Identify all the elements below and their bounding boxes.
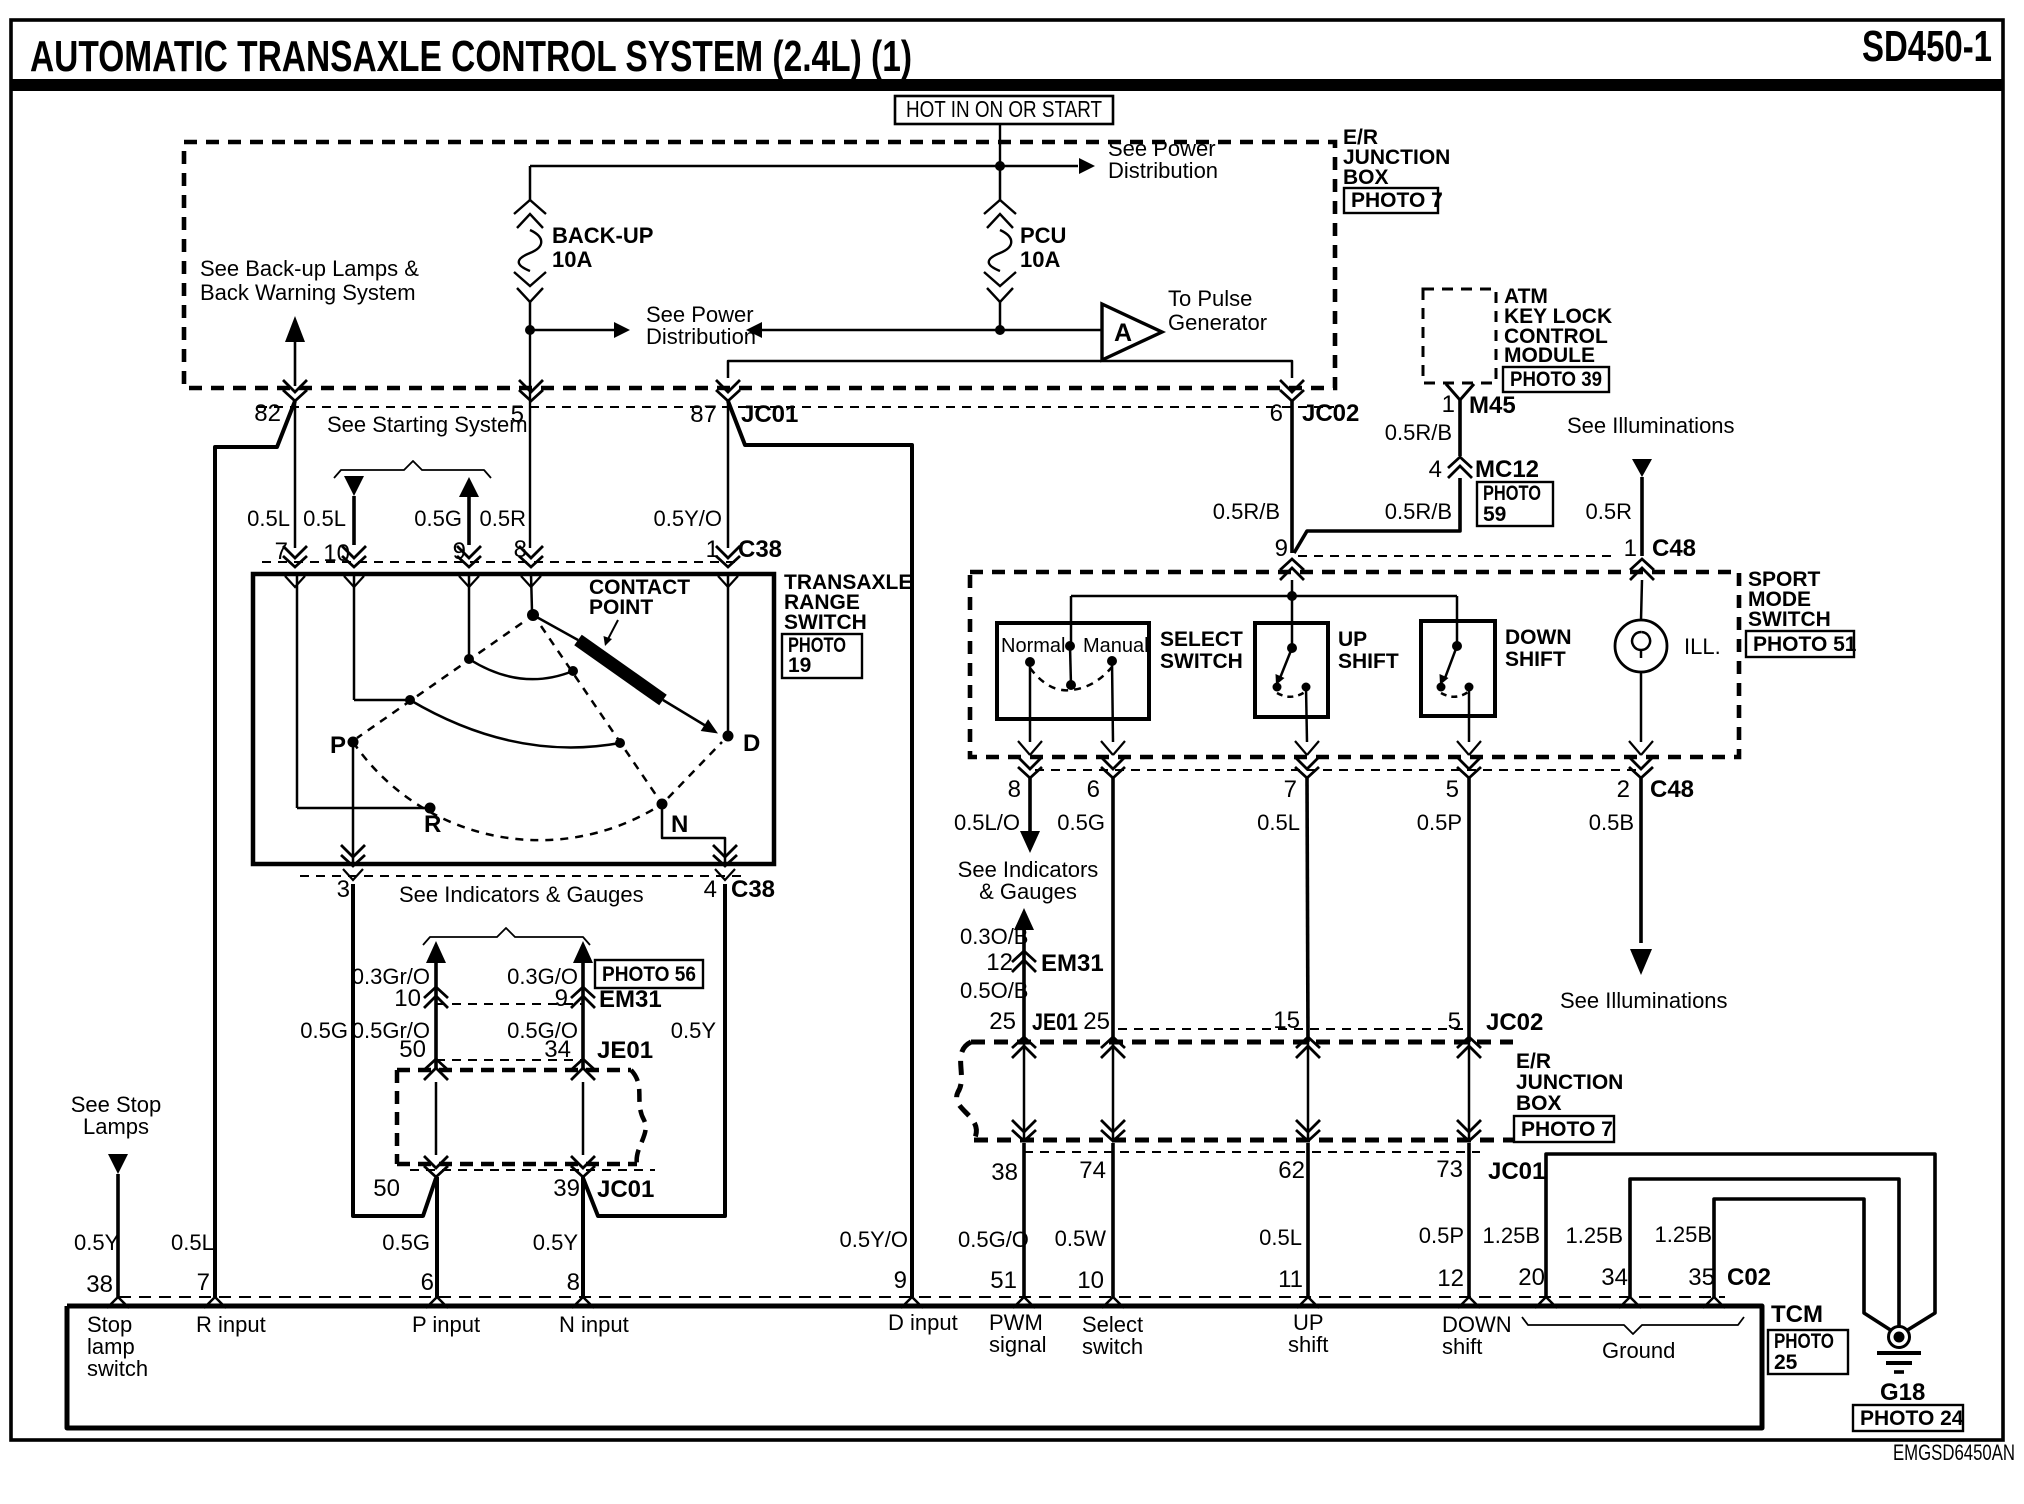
svg-text:JE01: JE01 bbox=[597, 1037, 653, 1064]
svg-text:0.5L: 0.5L bbox=[171, 1230, 214, 1255]
harness dashed JC02 row bbox=[1118, 1028, 1469, 1030]
wire select mid bbox=[1112, 1042, 1115, 1140]
select switch contacts bbox=[1025, 641, 1117, 690]
svg-text:PHOTO: PHOTO bbox=[1774, 1330, 1834, 1353]
svg-text:0.5Y: 0.5Y bbox=[74, 1230, 120, 1255]
connector C38-3 bbox=[341, 845, 365, 880]
svg-text:See Starting System: See Starting System bbox=[327, 412, 528, 437]
svg-text:JC02: JC02 bbox=[1486, 1009, 1543, 1036]
label 6 JC02 bbox=[1270, 400, 1360, 427]
svg-text:C38: C38 bbox=[738, 536, 782, 563]
svg-text:signal: signal bbox=[989, 1332, 1046, 1357]
sport mode switch box (dashed) bbox=[970, 572, 1739, 757]
TCM pin 7 R input bbox=[204, 1297, 226, 1308]
svg-text:0.5L: 0.5L bbox=[1257, 810, 1300, 835]
svg-text:35: 35 bbox=[1688, 1264, 1715, 1291]
connector JC02-5 bbox=[1457, 1037, 1481, 1058]
wire JC01-38 to PWM (0.5G/O) bbox=[1022, 1143, 1026, 1297]
down shift switch box bbox=[1421, 621, 1495, 716]
svg-text:0.5L/O: 0.5L/O bbox=[954, 810, 1020, 835]
harness dashed line C48 bottom bbox=[1035, 769, 1641, 771]
wire JC01-87 to JC02-6 link bbox=[728, 361, 1292, 378]
svg-text:A: A bbox=[1114, 319, 1132, 347]
connector JC02-25 bbox=[1101, 1037, 1125, 1058]
svg-text:1: 1 bbox=[706, 536, 719, 563]
svg-text:shift: shift bbox=[1288, 1332, 1328, 1357]
connector JE01-50 bbox=[424, 1059, 448, 1080]
TCM pin 51 PWM bbox=[1013, 1297, 1035, 1308]
svg-text:switch: switch bbox=[1082, 1334, 1143, 1359]
svg-text:HOT IN ON OR START: HOT IN ON OR START bbox=[906, 96, 1102, 122]
svg-text:AUTOMATIC TRANSAXLE CONTROL SY: AUTOMATIC TRANSAXLE CONTROL SYSTEM (2.4L… bbox=[30, 32, 912, 81]
svg-text:8: 8 bbox=[1008, 776, 1021, 803]
label See Power Distribution (top) bbox=[1108, 136, 1218, 183]
connector JE01-34 bbox=[571, 1059, 595, 1080]
svg-text:10: 10 bbox=[1077, 1267, 1104, 1294]
svg-text:10A: 10A bbox=[552, 247, 592, 272]
connector JC02-15 bbox=[1296, 1037, 1320, 1058]
svg-text:C48: C48 bbox=[1652, 535, 1696, 562]
wire 82 to C38-7 (0.5L) bbox=[294, 401, 297, 548]
label 1 C38 bbox=[706, 536, 782, 563]
arrow terminal to illuminations (0.5B) bbox=[1630, 949, 1652, 975]
svg-text:1.25B: 1.25B bbox=[1566, 1223, 1624, 1248]
svg-text:6: 6 bbox=[1087, 776, 1100, 803]
wire C48-1 to lamp bbox=[1641, 580, 1642, 620]
label BACK-UP 10A bbox=[552, 223, 653, 272]
svg-text:EM31: EM31 bbox=[1041, 950, 1104, 977]
harness dashed JE01 row bbox=[436, 1059, 583, 1061]
wire pin1 internal to D bbox=[727, 574, 730, 731]
label SELECT SWITCH bbox=[1160, 628, 1243, 673]
connector C38-1 bbox=[716, 546, 740, 587]
label SPORT MODE SWITCH bbox=[1748, 568, 1831, 631]
svg-text:BACK-UP: BACK-UP bbox=[552, 223, 653, 248]
TCM pin 6 P input bbox=[426, 1297, 448, 1308]
svg-text:9: 9 bbox=[555, 985, 568, 1012]
arrow terminal from starting system (pin10) bbox=[344, 476, 364, 545]
svg-text:0.5Y: 0.5Y bbox=[533, 1230, 579, 1255]
svg-text:0.5R/B: 0.5R/B bbox=[1385, 499, 1452, 524]
label 87 JC01 bbox=[690, 401, 798, 428]
fuse PCU 10A bbox=[999, 166, 1002, 200]
TCM box bbox=[67, 1306, 1762, 1428]
svg-text:Distribution: Distribution bbox=[1108, 158, 1218, 183]
svg-text:34: 34 bbox=[544, 1036, 571, 1063]
label Stop lamp switch bbox=[87, 1312, 148, 1381]
svg-text:PHOTO 24: PHOTO 24 bbox=[1860, 1407, 1964, 1430]
wire manual contact down bbox=[1112, 661, 1113, 742]
harness dashed line below E/R box bbox=[258, 406, 1334, 408]
wire pin7 to R contact bbox=[297, 807, 425, 810]
label box PHOTO 51 bbox=[1746, 631, 1857, 657]
label box PHOTO 7 bbox=[1344, 188, 1443, 213]
svg-text:50: 50 bbox=[373, 1175, 400, 1202]
svg-text:0.5B: 0.5B bbox=[1589, 810, 1634, 835]
wire JE01-34 to JC01-39 bbox=[582, 1082, 585, 1155]
leader contact point bbox=[604, 620, 619, 646]
E/R junction box (dashed) bbox=[184, 142, 1335, 388]
fuse BACK-UP 10A bbox=[529, 166, 532, 200]
connector sport box bottom x=1469 bbox=[1457, 741, 1481, 778]
label 2 C48 bbox=[1617, 776, 1694, 803]
label DOWN SHIFT bbox=[1505, 626, 1572, 671]
svg-text:2: 2 bbox=[1617, 776, 1630, 803]
node contact A bbox=[464, 654, 474, 664]
wire ground pin35 (1.25B) bbox=[1714, 1199, 1892, 1331]
svg-text:0.3O/B: 0.3O/B bbox=[960, 924, 1028, 949]
label E/R JUNCTION BOX (right) bbox=[1516, 1050, 1623, 1115]
node R bbox=[425, 803, 436, 814]
svg-text:PHOTO 51: PHOTO 51 bbox=[1753, 633, 1857, 656]
arrow terminal to indicators (P chain) bbox=[426, 941, 446, 963]
svg-text:JC01: JC01 bbox=[597, 1176, 654, 1203]
TCM pin 8 N input bbox=[572, 1297, 594, 1308]
TCM pin 9 D input bbox=[901, 1297, 923, 1308]
svg-text:PHOTO 39: PHOTO 39 bbox=[1510, 368, 1602, 391]
wire feed stub select bbox=[1070, 596, 1073, 648]
label UP SHIFT bbox=[1338, 628, 1399, 673]
svg-text:10: 10 bbox=[323, 540, 350, 567]
wire JE01-50 to JC01-50 bbox=[435, 1082, 438, 1155]
svg-text:11: 11 bbox=[1278, 1266, 1303, 1293]
buffer A to pulse generator bbox=[1102, 304, 1162, 360]
connector sport box bottom x=1030 bbox=[1018, 741, 1042, 778]
wire HOT feed down bbox=[999, 124, 1001, 166]
wire backup fuse to C38-8 bbox=[529, 330, 531, 548]
svg-text:BOX: BOX bbox=[1516, 1092, 1562, 1115]
node D bbox=[723, 731, 734, 742]
svg-text:SWITCH: SWITCH bbox=[1748, 608, 1831, 631]
node pcu fuse output bbox=[995, 325, 1005, 335]
svg-text:See Indicators & Gauges: See Indicators & Gauges bbox=[399, 882, 644, 907]
svg-text:switch: switch bbox=[87, 1356, 148, 1381]
svg-text:1.25B: 1.25B bbox=[1483, 1223, 1541, 1248]
label UP shift bbox=[1288, 1310, 1328, 1357]
svg-text:TCM: TCM bbox=[1771, 1301, 1823, 1328]
svg-text:19: 19 bbox=[788, 654, 811, 677]
wire down shift output bbox=[1468, 687, 1471, 742]
svg-text:R: R bbox=[424, 811, 441, 838]
label 39 JC01 bbox=[553, 1175, 654, 1203]
connector EM31-12 bbox=[1012, 951, 1036, 972]
svg-text:See Illuminations: See Illuminations bbox=[1560, 988, 1728, 1013]
node contact C bbox=[405, 695, 415, 705]
connector JC01-38 bbox=[1012, 1120, 1036, 1141]
label box PHOTO 19 bbox=[782, 634, 862, 678]
connector JC01-74 bbox=[1101, 1120, 1125, 1141]
svg-text:38: 38 bbox=[86, 1271, 113, 1298]
wire JC01-39 to N input bbox=[581, 1177, 585, 1297]
svg-text:PHOTO 7: PHOTO 7 bbox=[1351, 189, 1443, 212]
wire JC01-73 to down shift (0.5P) bbox=[1467, 1143, 1471, 1297]
svg-text:N input: N input bbox=[559, 1312, 629, 1337]
svg-text:JC01: JC01 bbox=[1488, 1158, 1545, 1185]
harness dashed JC01 row (left) bbox=[410, 1169, 655, 1171]
svg-text:SWITCH: SWITCH bbox=[784, 611, 867, 634]
wire backup output to arrow bbox=[530, 329, 614, 331]
connector M45-1 bbox=[1446, 384, 1474, 410]
connector JC01-62 bbox=[1296, 1120, 1320, 1141]
arrow terminal to indicators (PWM chain) bbox=[1014, 908, 1034, 930]
ground symbol G18 bbox=[1877, 1327, 1921, 1373]
harness dashed line C48 top bbox=[1298, 555, 1616, 557]
svg-text:0.5G: 0.5G bbox=[414, 506, 462, 531]
wire JC01-50 to P input bbox=[435, 1177, 439, 1297]
wire ground pin20 (1.25B) bbox=[1546, 1154, 1935, 1331]
svg-text:0.5G: 0.5G bbox=[1057, 810, 1105, 835]
svg-text:5: 5 bbox=[1446, 776, 1459, 803]
TCM pin 35 gnd bbox=[1703, 1297, 1725, 1308]
contact arc upper bbox=[469, 659, 573, 679]
connector JC01-87 bbox=[716, 380, 740, 401]
wire JC01-74 to select (0.5W) bbox=[1111, 1143, 1115, 1297]
svg-text:Normal: Normal bbox=[1001, 635, 1065, 657]
dashed sector radius right bbox=[541, 626, 658, 798]
wire up shift output bbox=[1306, 687, 1307, 742]
up shift contacts bbox=[1273, 643, 1311, 697]
title underline bar bbox=[11, 79, 2003, 91]
label 5 JC02 bbox=[1448, 1008, 1544, 1036]
svg-text:73: 73 bbox=[1436, 1156, 1463, 1183]
label 73 JC01 bbox=[1436, 1156, 1545, 1185]
wire feed stub up bbox=[1291, 580, 1294, 648]
svg-text:JC02: JC02 bbox=[1302, 400, 1359, 427]
svg-text:82: 82 bbox=[254, 400, 281, 427]
wire down shift to JC02-5 (0.5P) bbox=[1467, 777, 1471, 1042]
label box PHOTO 25 bbox=[1768, 1330, 1848, 1374]
TCM pin 12 down bbox=[1458, 1297, 1480, 1308]
dashed segment N to D bbox=[668, 742, 722, 798]
wire up mid bbox=[1307, 1042, 1310, 1140]
junction block dashed (JE01-JC01) bbox=[397, 1070, 646, 1164]
TCM pin 34 gnd bbox=[1619, 1297, 1641, 1308]
wire illumination feed (0.5R) bbox=[1640, 477, 1644, 556]
svg-text:1.25B: 1.25B bbox=[1655, 1222, 1713, 1247]
node pivot bbox=[527, 609, 539, 621]
svg-text:0.5W: 0.5W bbox=[1055, 1226, 1107, 1251]
label PCU 10A bbox=[1020, 223, 1066, 272]
svg-text:0.5G: 0.5G bbox=[382, 1230, 430, 1255]
svg-text:6: 6 bbox=[1270, 400, 1283, 427]
svg-text:59: 59 bbox=[1483, 503, 1506, 526]
wire pin3 chain lower bbox=[353, 884, 436, 1216]
transaxle range switch box bbox=[253, 574, 774, 864]
svg-text:5: 5 bbox=[1448, 1008, 1461, 1035]
label PWM signal bbox=[989, 1310, 1046, 1357]
svg-text:SHIFT: SHIFT bbox=[1505, 648, 1566, 671]
svg-text:BOX: BOX bbox=[1343, 166, 1389, 189]
svg-text:0.5R/B: 0.5R/B bbox=[1213, 499, 1280, 524]
harness dashed EM31 row bbox=[436, 1003, 583, 1005]
connector C38-9 bbox=[457, 546, 481, 587]
svg-text:& Gauges: & Gauges bbox=[979, 879, 1077, 904]
svg-text:C02: C02 bbox=[1727, 1264, 1771, 1291]
up shift switch box bbox=[1255, 623, 1328, 717]
connector C48-9 bbox=[1280, 559, 1304, 580]
label 1 M45 bbox=[1442, 391, 1516, 419]
contact point wiper bbox=[533, 615, 718, 734]
wire C48-8 down (0.5L/O) bbox=[1028, 777, 1032, 831]
label See Indicators & Gauges (right) bbox=[958, 857, 1099, 904]
svg-text:DOWN: DOWN bbox=[1505, 626, 1572, 649]
connector sport box bottom x=1307 bbox=[1295, 741, 1319, 778]
wire pin4 chain lower bbox=[583, 884, 725, 1216]
connector JC01-73 bbox=[1457, 1120, 1481, 1141]
svg-text:G18: G18 bbox=[1880, 1379, 1925, 1406]
svg-text:SWITCH: SWITCH bbox=[1160, 650, 1243, 673]
label 25 JE01 bbox=[989, 1008, 1078, 1036]
svg-text:62: 62 bbox=[1278, 1157, 1305, 1184]
label 34 JE01 bbox=[544, 1036, 653, 1064]
arrow terminal to indicators (0.5L/O) bbox=[1020, 831, 1040, 853]
wire P-gauge chain upper bbox=[434, 963, 438, 1070]
svg-text:0.5P: 0.5P bbox=[1419, 1223, 1464, 1248]
svg-text:shift: shift bbox=[1442, 1334, 1482, 1359]
label 1 C48 bbox=[1624, 535, 1696, 562]
label CONTACT POINT bbox=[589, 576, 690, 619]
brace starting system bbox=[334, 461, 491, 478]
svg-text:Distribution: Distribution bbox=[646, 324, 756, 349]
svg-text:0.5P: 0.5P bbox=[1417, 810, 1462, 835]
wire JC01-87 to D input bbox=[728, 401, 912, 1297]
svg-text:PCU: PCU bbox=[1020, 223, 1066, 248]
label 4 C38 bbox=[704, 876, 775, 903]
TCM pin 11 up bbox=[1297, 1297, 1319, 1308]
svg-text:25: 25 bbox=[989, 1008, 1016, 1035]
svg-text:0.5L: 0.5L bbox=[1259, 1225, 1302, 1250]
TCM pin 10 select bbox=[1102, 1297, 1124, 1308]
wire 82 branch to R input bbox=[215, 401, 295, 1297]
svg-text:7: 7 bbox=[197, 1269, 210, 1296]
svg-text:20: 20 bbox=[1518, 1264, 1545, 1291]
svg-text:0.5L: 0.5L bbox=[303, 506, 346, 531]
connector EM31-10 bbox=[424, 987, 448, 1008]
label See Back-up Lamps bbox=[200, 256, 419, 305]
arrow terminal from stop lamps bbox=[108, 1154, 128, 1174]
svg-text:0.5G: 0.5G bbox=[300, 1018, 348, 1043]
svg-text:EMGSD6450AN: EMGSD6450AN bbox=[1893, 1440, 2015, 1465]
ATM key lock module box (dashed) bbox=[1423, 289, 1496, 383]
arrow terminal to indicators (N chain) bbox=[573, 941, 593, 963]
svg-text:39: 39 bbox=[553, 1175, 580, 1202]
arrow see power distribution right (mid) bbox=[746, 322, 762, 338]
E/R junction dashed bus left curl bbox=[957, 1042, 977, 1140]
contact arc middle bbox=[410, 700, 620, 747]
svg-text:0.5Y/O: 0.5Y/O bbox=[840, 1227, 908, 1252]
wire stop lamp switch bbox=[116, 1174, 120, 1297]
wire M45 to MC12 (0.5R/B) bbox=[1458, 399, 1462, 456]
svg-text:EM31: EM31 bbox=[599, 986, 662, 1013]
svg-text:1: 1 bbox=[1624, 535, 1637, 562]
TCM pin 38 stop lamp bbox=[107, 1297, 129, 1308]
lamp ILL bbox=[1615, 620, 1667, 672]
wire top feed horizontal bbox=[530, 165, 1078, 167]
wire P contact to pin3 bbox=[352, 746, 355, 864]
wire JC01-62 to up shift (0.5L) bbox=[1306, 1143, 1310, 1297]
node contact D2 bbox=[615, 738, 625, 748]
svg-text:Back Warning System: Back Warning System bbox=[200, 280, 416, 305]
label 35 C02 bbox=[1688, 1264, 1771, 1291]
svg-text:SD450-1: SD450-1 bbox=[1862, 22, 1992, 71]
dashed sector outer arc bbox=[353, 742, 662, 840]
label box PHOTO 56 bbox=[595, 960, 703, 988]
down shift contacts bbox=[1437, 641, 1474, 697]
connector JC01-5 bbox=[519, 380, 543, 401]
E/R junction dashed bus bottom bbox=[974, 1138, 1513, 1143]
label 12 EM31 bbox=[986, 949, 1103, 977]
svg-text:25: 25 bbox=[1083, 1008, 1110, 1035]
label 9 EM31 bbox=[555, 985, 662, 1013]
node contact B bbox=[568, 666, 578, 676]
arrow terminal from illuminations bbox=[1632, 459, 1652, 477]
harness dashed JC01 row (right) bbox=[1024, 1151, 1480, 1153]
svg-text:4: 4 bbox=[704, 876, 717, 903]
svg-text:50: 50 bbox=[399, 1036, 426, 1063]
wire normal contact down bbox=[1029, 662, 1032, 742]
wire JC02-6 down (0.5R/B) bbox=[1290, 401, 1294, 553]
svg-text:74: 74 bbox=[1079, 1157, 1106, 1184]
wire down mid bbox=[1468, 1042, 1471, 1140]
svg-text:See Illuminations: See Illuminations bbox=[1567, 413, 1735, 438]
label See Power Distribution (mid) bbox=[646, 302, 756, 349]
svg-text:JE01: JE01 bbox=[1032, 1009, 1078, 1036]
svg-text:12: 12 bbox=[986, 949, 1013, 976]
svg-text:N: N bbox=[671, 811, 688, 838]
label E/R JUNCTION BOX bbox=[1343, 126, 1450, 189]
svg-text:MC12: MC12 bbox=[1475, 456, 1539, 483]
svg-text:4: 4 bbox=[1429, 456, 1442, 483]
label To Pulse Generator bbox=[1168, 286, 1267, 335]
svg-text:D input: D input bbox=[888, 1310, 958, 1335]
label box HOT IN ON OR START bbox=[895, 96, 1113, 124]
svg-text:JUNCTION: JUNCTION bbox=[1516, 1071, 1623, 1094]
svg-text:10: 10 bbox=[394, 985, 421, 1012]
svg-text:8: 8 bbox=[567, 1269, 580, 1296]
connector JE01-25 bbox=[1012, 1037, 1036, 1058]
svg-text:Ground: Ground bbox=[1602, 1338, 1675, 1363]
svg-text:87: 87 bbox=[690, 401, 717, 428]
E/R junction dashed bus top bbox=[971, 1040, 1513, 1045]
svg-text:M45: M45 bbox=[1469, 392, 1516, 419]
wire pin9 internal bbox=[468, 574, 471, 655]
wire MC12 to sport switch bbox=[1294, 478, 1460, 553]
harness dashed line above TCM bbox=[119, 1296, 1725, 1298]
svg-text:Manual: Manual bbox=[1083, 635, 1149, 657]
connector EM31-9 bbox=[571, 987, 595, 1008]
svg-text:ILL.: ILL. bbox=[1684, 634, 1721, 659]
svg-text:MODULE: MODULE bbox=[1504, 344, 1595, 367]
svg-text:3: 3 bbox=[337, 876, 350, 903]
svg-text:E/R: E/R bbox=[1516, 1050, 1551, 1073]
svg-text:34: 34 bbox=[1601, 1264, 1628, 1291]
connector C38-7 bbox=[283, 546, 307, 587]
svg-text:PHOTO: PHOTO bbox=[1483, 482, 1541, 505]
connector JC02-6 bbox=[1280, 380, 1304, 401]
label box PHOTO 24 bbox=[1853, 1405, 1964, 1431]
label box PHOTO 59 bbox=[1477, 482, 1553, 526]
label box PHOTO 39 bbox=[1503, 367, 1609, 392]
label TRANSAXLE RANGE SWITCH bbox=[784, 571, 912, 634]
svg-text:PHOTO 7: PHOTO 7 bbox=[1521, 1118, 1613, 1141]
svg-text:Lamps: Lamps bbox=[83, 1114, 149, 1139]
wire up shift to JC02-15 (0.5L) bbox=[1307, 777, 1308, 1042]
svg-text:0.5O/B: 0.5O/B bbox=[960, 978, 1028, 1003]
svg-text:9: 9 bbox=[453, 538, 466, 565]
arrow see power distribution (top) bbox=[1079, 158, 1095, 174]
arrow see power distribution left (mid) bbox=[614, 322, 630, 338]
arrow terminal to back-up lamps bbox=[285, 316, 305, 386]
